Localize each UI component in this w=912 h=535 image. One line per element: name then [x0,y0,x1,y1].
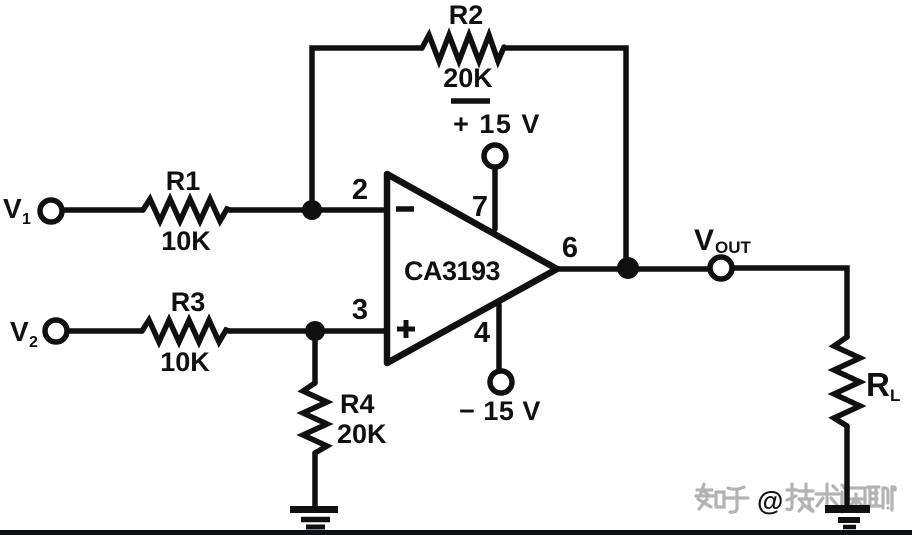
svg-text:R4: R4 [340,389,375,419]
svg-text:V: V [10,316,29,347]
svg-text:L: L [890,386,900,405]
svg-text:OUT: OUT [715,238,752,257]
svg-text:2: 2 [352,174,368,206]
svg-text:@: @ [757,486,783,516]
svg-text:+ 15 V: + 15 V [453,109,541,139]
svg-text:6: 6 [562,232,578,264]
svg-text:R: R [866,366,890,403]
svg-text:4: 4 [474,317,490,349]
svg-text:10K: 10K [161,226,211,256]
svg-text:V: V [3,193,22,224]
svg-text:CA3193: CA3193 [404,256,501,286]
svg-text:− 15 V: − 15 V [459,396,541,426]
svg-text:R3: R3 [171,287,206,317]
svg-text:V: V [694,224,714,257]
svg-text:1: 1 [22,211,31,228]
svg-text:2: 2 [29,334,38,351]
svg-text:R1: R1 [166,166,201,196]
svg-text:20K: 20K [443,63,493,93]
svg-text:7: 7 [472,191,488,223]
svg-text:R2: R2 [449,0,484,30]
svg-text:20K: 20K [337,419,387,449]
svg-text:3: 3 [352,294,368,326]
svg-text:10K: 10K [160,347,210,377]
